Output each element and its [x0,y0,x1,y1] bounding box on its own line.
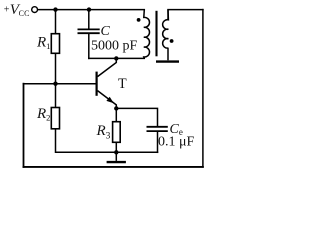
transistor T base bar [95,72,97,96]
wire: top supply rail [38,9,145,11]
node: collector/tank junction [114,56,118,60]
wire: R3 top lead [115,108,117,121]
transformer secondary polarity dot [170,39,174,43]
resistor R2 [51,108,59,129]
ground (emitter/divider) bar [107,161,126,163]
wire: ground run to Ce bottom [116,151,157,153]
node: base junction [53,82,57,86]
wire: R3 bottom lead [115,142,117,152]
terminal +Vcc [32,7,38,13]
wire: bottom rail [24,166,203,168]
node: rail/R1 junction [53,7,57,11]
wire: R2 bottom lead + run to ground node [56,129,117,153]
wire: R1 top lead [55,10,57,34]
svg-text:T: T [118,76,127,92]
wire: C top lead [88,10,90,29]
capacitor Ce plates [147,127,168,131]
wire: emitter wire to Ce [116,108,157,126]
wire: right vertical (output loop) [202,10,204,167]
svg-text:CC: CC [19,9,30,18]
svg-text:C: C [101,24,111,39]
wire: C bottom lead [88,34,90,59]
capacitor C plates [78,29,100,33]
transformer core [155,11,157,57]
transistor T emitter lead [98,91,117,109]
wire: collector tank wire [89,57,145,59]
svg-text:5000 pF: 5000 pF [91,38,138,53]
wire: R2 top lead [55,84,57,108]
node: ground junction [114,150,118,154]
wire: left vertical (base feedback) [23,84,25,167]
transformer secondary winding [163,10,169,61]
node: rail/C junction [87,7,91,11]
node: emitter junction [114,106,118,110]
wire: base wire [24,83,96,85]
transformer primary polarity dot [137,18,141,22]
ground (emitter/divider) lead [115,152,117,161]
transformer primary winding [144,10,150,59]
wire: Ce bottom lead [157,132,159,152]
wire: R1 bottom lead [55,53,57,83]
ground (secondary) [156,60,179,62]
wire: secondary top lead to right [168,10,203,20]
resistor R3 [113,122,121,143]
transistor T emitter arrow [106,97,113,104]
transistor T collector lead [98,58,117,76]
svg-text:0.1 μF: 0.1 μF [158,135,195,150]
resistor R1 [51,34,59,54]
